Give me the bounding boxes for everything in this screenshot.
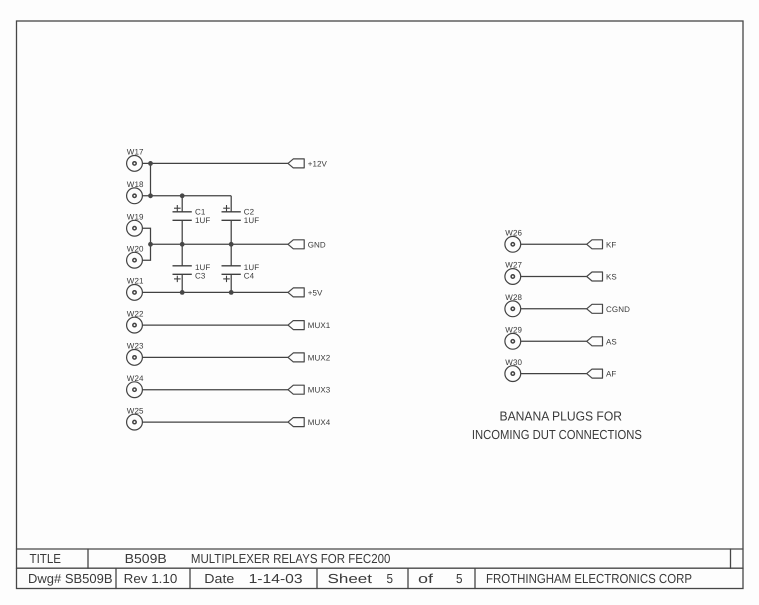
tag MUX4 — [288, 418, 304, 427]
svg-text:MUX4: MUX4 — [308, 418, 331, 427]
tag +5V — [288, 288, 304, 297]
wire W27 to KS — [521, 276, 587, 278]
wire MUX3 — [142, 389, 288, 391]
banana plug W20 — [127, 252, 143, 268]
tag AS — [587, 337, 603, 346]
wire W30 to AF — [521, 373, 587, 375]
svg-text:W20: W20 — [127, 244, 144, 253]
title block row2 divider after Date — [316, 568, 318, 588]
title block row2 divider after of — [474, 568, 476, 588]
svg-text:MUX1: MUX1 — [308, 321, 331, 330]
junction C1 top — [180, 193, 185, 198]
wire MUX2 — [142, 356, 288, 358]
svg-text:+12V: +12V — [308, 159, 328, 168]
tag CGND — [587, 304, 603, 313]
svg-text:5: 5 — [387, 571, 394, 586]
wire C1 bottom to GND — [181, 220, 183, 244]
capacitor C3 plates — [173, 265, 192, 267]
svg-text:B509B: B509B — [125, 551, 167, 566]
svg-text:W25: W25 — [127, 406, 144, 415]
junction W17 rail — [148, 161, 153, 166]
svg-text:BANANA PLUGS FOR: BANANA PLUGS FOR — [500, 408, 623, 423]
title block row2 divider after Sheet — [407, 568, 409, 588]
svg-text:KF: KF — [606, 240, 616, 249]
wire +5V rail — [142, 291, 288, 293]
wire C2 top branch — [230, 196, 232, 212]
title block row2 divider after Rev — [189, 568, 191, 588]
svg-text:INCOMING DUT CONNECTIONS: INCOMING DUT CONNECTIONS — [472, 427, 642, 442]
capacitor C2 plates — [222, 211, 241, 213]
wire C3 bottom to +5V — [181, 274, 183, 292]
banana plug W26 — [505, 236, 521, 252]
wire C4 top branch — [230, 244, 232, 265]
banana plug W29 — [505, 333, 521, 349]
title block row1 divider right end — [730, 549, 732, 568]
tag +12V — [288, 159, 304, 168]
title block row1 divider after TITLE — [87, 549, 89, 568]
banana plug W22 — [127, 317, 143, 333]
tag KS — [587, 272, 603, 281]
svg-text:W27: W27 — [505, 261, 522, 270]
svg-text:of: of — [418, 571, 434, 586]
svg-text:W24: W24 — [127, 374, 144, 383]
wire +12V rail — [142, 162, 288, 164]
svg-text:W22: W22 — [127, 309, 144, 318]
svg-text:W29: W29 — [505, 326, 522, 335]
tag KF — [587, 240, 603, 249]
svg-text:W19: W19 — [127, 212, 144, 221]
svg-text:AF: AF — [606, 370, 616, 379]
svg-text:C3: C3 — [195, 271, 206, 280]
svg-text:W30: W30 — [505, 358, 522, 367]
capacitor C1 plates — [173, 211, 192, 213]
title block horizontal line row1 top — [17, 548, 744, 550]
svg-text:CGND: CGND — [606, 305, 630, 314]
banana plug W23 — [127, 350, 143, 366]
tag AF — [587, 369, 603, 378]
junction C4 +5V — [229, 290, 234, 295]
svg-text:MULTIPLEXER RELAYS FOR FEC200: MULTIPLEXER RELAYS FOR FEC200 — [191, 551, 391, 566]
wire C2 bottom to GND — [230, 220, 232, 244]
plus sign C2 — [223, 207, 230, 209]
wire W17 to W18 vertical — [150, 163, 152, 195]
svg-text:1-14-03: 1-14-03 — [249, 571, 303, 586]
svg-text:Date: Date — [204, 571, 234, 586]
capacitor C4 plates — [222, 265, 241, 267]
wire C3 top branch — [181, 244, 183, 265]
banana plug W28 — [505, 301, 521, 317]
svg-text:C4: C4 — [244, 271, 255, 280]
svg-text:W21: W21 — [127, 277, 144, 286]
svg-text:MUX3: MUX3 — [308, 386, 331, 395]
wire C4 bottom to +5V — [230, 274, 232, 292]
wire W19 stub — [142, 228, 150, 244]
svg-text:5: 5 — [456, 571, 463, 586]
banana plug W21 — [127, 285, 143, 301]
svg-text:W18: W18 — [127, 180, 144, 189]
wire W18 rail — [142, 195, 231, 197]
wire C1 top branch — [181, 196, 183, 212]
svg-text:Rev 1.10: Rev 1.10 — [124, 571, 178, 586]
tag GND — [288, 240, 304, 249]
svg-text:Sheet: Sheet — [328, 571, 373, 586]
banana plug W18 — [127, 188, 143, 204]
banana plug W30 — [505, 366, 521, 382]
svg-text:AS: AS — [606, 337, 617, 346]
svg-text:TITLE: TITLE — [30, 551, 62, 566]
tag MUX3 — [288, 385, 304, 394]
banana plug W27 — [505, 269, 521, 285]
svg-text:W26: W26 — [505, 229, 522, 238]
svg-text:1UF: 1UF — [195, 216, 210, 225]
plus sign C4 — [223, 278, 230, 280]
svg-text:W17: W17 — [127, 148, 144, 157]
wire MUX1 — [142, 324, 288, 326]
wire W29 to AS — [521, 340, 587, 342]
wire W26 to KF — [521, 243, 587, 245]
junction C3 +5V — [180, 290, 185, 295]
banana plug W25 — [127, 414, 143, 430]
svg-text:GND: GND — [308, 240, 326, 249]
plus sign C1 — [174, 207, 181, 209]
wire W28 to CGND — [521, 308, 587, 310]
wire GND rail — [151, 243, 289, 245]
svg-text:+5V: +5V — [308, 288, 323, 297]
banana plug W19 — [127, 220, 143, 236]
svg-text:Dwg# SB509B: Dwg# SB509B — [28, 571, 113, 586]
svg-text:1UF: 1UF — [244, 216, 259, 225]
junction C1 GND — [180, 242, 185, 247]
svg-text:W23: W23 — [127, 342, 144, 351]
junction GND left — [148, 242, 153, 247]
junction W18 rail left — [148, 193, 153, 198]
title block horizontal line row boundary — [17, 567, 744, 569]
title block row2 divider after Dwg — [115, 568, 117, 588]
svg-text:FROTHINGHAM ELECTRONICS CORP: FROTHINGHAM ELECTRONICS CORP — [486, 571, 692, 586]
wire W20 stub — [142, 244, 150, 260]
banana plug W17 — [127, 156, 143, 172]
tag MUX1 — [288, 321, 304, 330]
tag MUX2 — [288, 353, 304, 362]
wire MUX4 — [142, 421, 288, 423]
plus sign C3 — [174, 278, 181, 280]
banana plug W24 — [127, 382, 143, 398]
junction C2 GND — [229, 242, 234, 247]
svg-text:MUX2: MUX2 — [308, 353, 331, 362]
svg-text:KS: KS — [606, 273, 617, 282]
svg-text:W28: W28 — [505, 293, 522, 302]
